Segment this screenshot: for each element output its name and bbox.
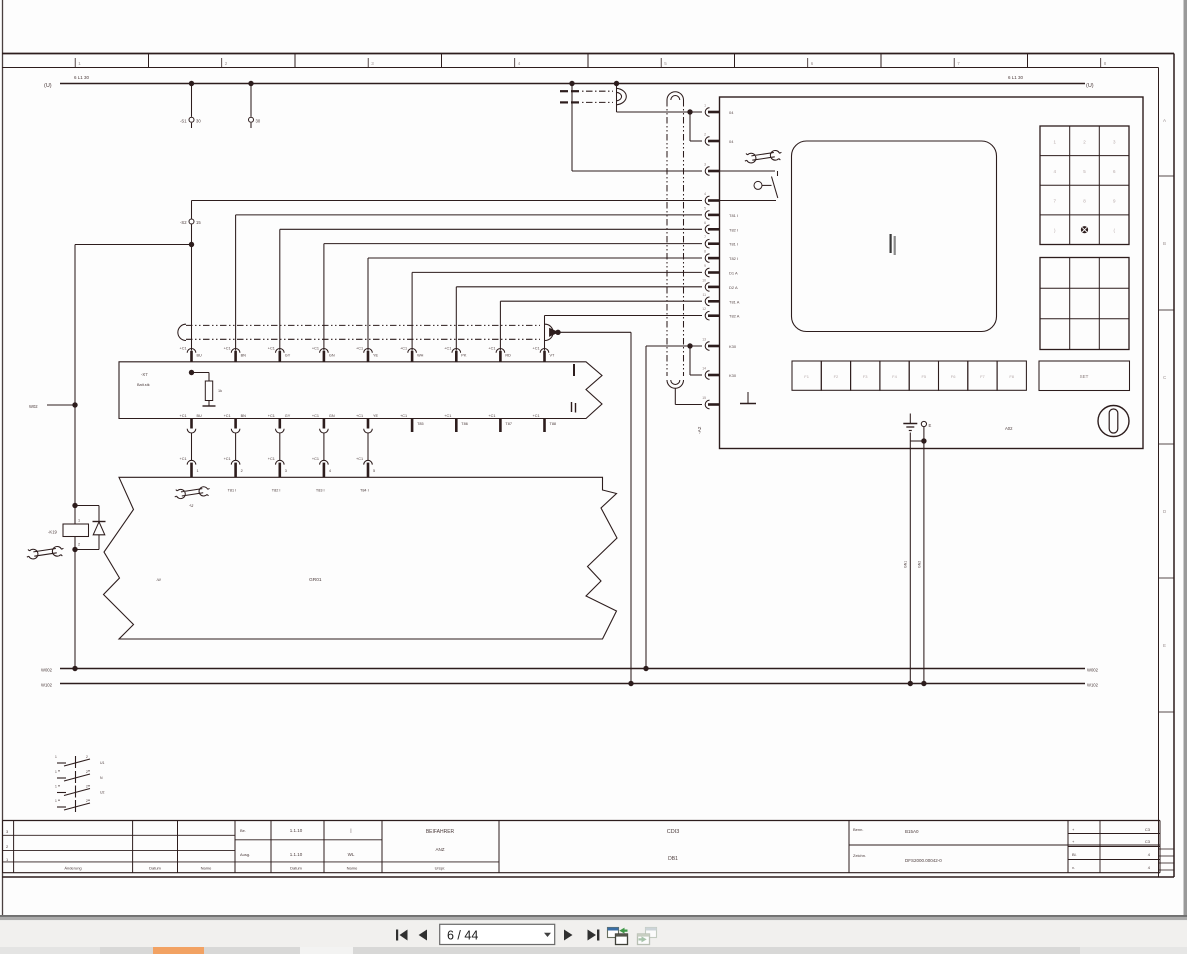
earth terminal E <box>921 421 926 426</box>
wire top supply bus +U <box>60 83 1085 85</box>
svg-text:Name: Name <box>201 866 212 871</box>
toolbar prev-page button <box>419 930 427 941</box>
svg-text:U2: U2 <box>100 791 105 795</box>
frame column ticks and numbers <box>74 58 76 68</box>
service wrench icon near harness W2 <box>173 483 211 503</box>
svg-text:F8: F8 <box>1009 374 1014 379</box>
svg-text:2: 2 <box>86 770 88 774</box>
svg-text:+C1: +C1 <box>312 347 319 351</box>
panel internal ground <box>747 392 749 404</box>
svg-text:+C1: +C1 <box>224 347 231 351</box>
svg-text:U1: U1 <box>100 761 105 765</box>
svg-text:D2 A: D2 A <box>729 285 738 290</box>
connector X7 pin 3 top <box>275 348 284 352</box>
wire pin 2 to lower connector <box>235 433 237 460</box>
panel A2 pin 8 <box>705 254 709 263</box>
svg-text:5: 5 <box>373 469 375 473</box>
twisted pair W3 (dash-dot) <box>560 90 568 92</box>
svg-text:2: 2 <box>86 785 88 789</box>
connector X7 pin 6 bottom stub <box>411 419 414 433</box>
svg-text:GN: GN <box>329 354 335 358</box>
svg-text:15: 15 <box>196 220 201 225</box>
svg-text:Name: Name <box>347 866 358 871</box>
svg-text:GN: GN <box>329 414 335 418</box>
toolbar page combobox <box>440 924 555 944</box>
svg-text:WH: WH <box>417 354 424 358</box>
svg-text:F1: F1 <box>804 374 809 379</box>
wire pin8 to panel <box>500 300 702 302</box>
connector X7 pin 8 top <box>496 348 505 352</box>
svg-text:+C1: +C1 <box>533 414 540 418</box>
svg-text:GN2: GN2 <box>918 561 922 568</box>
wire pin6 to panel <box>412 271 702 273</box>
svg-text:PK: PK <box>461 354 467 358</box>
svg-text:T81 I: T81 I <box>729 242 738 247</box>
svg-text:F7: F7 <box>980 374 985 379</box>
junction pin13 branch <box>687 343 692 348</box>
svg-text:5: 5 <box>704 206 706 210</box>
cable shield W1 (dash-dot pair) <box>186 324 540 326</box>
service wrench icon in panel <box>743 146 783 167</box>
svg-text:+C1: +C1 <box>400 347 407 351</box>
svg-text:T82 I: T82 I <box>729 227 738 232</box>
svg-text:v.: v. <box>1072 865 1075 870</box>
svg-text:8: 8 <box>704 250 706 254</box>
svg-text:T81 A: T81 A <box>729 299 740 304</box>
svg-text:F2: F2 <box>834 374 839 379</box>
svg-text:2: 2 <box>86 799 88 803</box>
status strip right segment <box>1080 947 1187 954</box>
svg-text:+C1: +C1 <box>488 414 495 418</box>
svg-text:GR01: GR01 <box>309 577 322 583</box>
svg-text:W102: W102 <box>41 683 53 688</box>
svg-text:14: 14 <box>702 367 706 371</box>
svg-text:BU: BU <box>197 414 203 418</box>
svg-text:T83 I: T83 I <box>316 489 325 493</box>
svg-text:(U): (U) <box>44 83 52 89</box>
svg-text:ANZ: ANZ <box>436 847 445 852</box>
svg-text:Zeichn.: Zeichn. <box>853 853 866 858</box>
wire pin3 to panel <box>280 228 702 230</box>
svg-text:CDI3: CDI3 <box>667 829 680 835</box>
panel A2 pin 11 <box>705 297 709 306</box>
junction on bus at CAN wire <box>614 81 619 86</box>
junction pin13 wire on W002 <box>643 666 648 671</box>
connector X7 pin 4 top <box>320 348 329 352</box>
svg-text:(U): (U) <box>1086 83 1094 89</box>
svg-text:1.1.10: 1.1.10 <box>290 852 303 857</box>
svg-text:1: 1 <box>55 755 57 759</box>
junction panel pin1 branch <box>687 109 692 114</box>
wire pin9 to panel <box>545 315 703 317</box>
status strip orange segment <box>153 947 204 954</box>
svg-text:Änderung: Änderung <box>64 866 81 871</box>
connector X7 pin 6 top <box>408 348 417 352</box>
svg-text:T87: T87 <box>505 422 512 426</box>
drawing frame top border <box>2 53 1174 55</box>
key switch S10 in panel <box>720 170 776 172</box>
status strip left segment <box>0 947 100 954</box>
svg-text:YE: YE <box>373 354 379 358</box>
svg-text:6: 6 <box>704 221 706 225</box>
svg-text:BN: BN <box>241 414 247 418</box>
svg-text:3: 3 <box>285 469 287 473</box>
svg-text:Bl.: Bl. <box>1072 852 1077 857</box>
svg-text:10: 10 <box>702 278 706 282</box>
svg-text:+C1: +C1 <box>400 414 407 418</box>
svg-text:C3: C3 <box>1145 839 1151 844</box>
svg-text:F3: F3 <box>863 374 868 379</box>
connector X7 pin 9 top <box>540 349 549 353</box>
svg-text:W102: W102 <box>1087 683 1099 688</box>
wire left rail <box>74 245 76 525</box>
SET button in panel <box>1039 361 1130 391</box>
svg-text:1: 1 <box>55 799 57 803</box>
contact cross-reference legend <box>57 762 66 764</box>
page left edge <box>2 0 4 915</box>
wire pin1 to panel with terminal S2 <box>192 200 703 202</box>
svg-text:+C1: +C1 <box>224 414 231 418</box>
wire pin 4 to lower connector <box>323 433 325 460</box>
svg-text:+C1: +C1 <box>533 347 540 351</box>
panel A2 pin 1 <box>705 108 709 117</box>
wire pin2 to panel <box>236 214 702 216</box>
wire shield W4 drain to panel <box>674 388 676 404</box>
svg-text:4: 4 <box>704 192 706 196</box>
panel A2 pin 10 <box>705 283 709 292</box>
harness block W2 outline <box>104 477 618 639</box>
status strip light gap <box>300 947 353 954</box>
earth ground symbol <box>909 414 911 424</box>
wire branch to left rail <box>75 244 192 246</box>
svg-text:+C1: +C1 <box>224 457 231 461</box>
display center glyph <box>890 234 892 253</box>
toolbar top border <box>0 915 1187 917</box>
twisted pair W3 shield termination <box>617 88 627 105</box>
connector X7 pin 5 bottom <box>367 419 370 429</box>
drawing frame inner top border <box>2 67 1159 69</box>
svg-text:+C1: +C1 <box>444 347 451 351</box>
toolbar previous-view button <box>608 928 619 938</box>
svg-text:-W: -W <box>156 578 161 582</box>
svg-text:Ausg.: Ausg. <box>240 852 250 857</box>
svg-text:A02: A02 <box>1005 426 1013 431</box>
drawing frame bottom border <box>2 876 1174 878</box>
svg-text:Urspr.: Urspr. <box>435 866 446 871</box>
svg-text:Benn.: Benn. <box>853 827 863 832</box>
junction left rail on W002 <box>72 666 77 671</box>
panel A2 pin 3 <box>705 167 709 176</box>
svg-text:30: 30 <box>196 119 201 124</box>
svg-text:+C1: +C1 <box>268 347 275 351</box>
junction left rail net label <box>72 402 77 407</box>
suppressor diode V1 across relay <box>75 505 99 507</box>
svg-text:1: 1 <box>55 770 57 774</box>
toolbar last-page button <box>588 930 597 941</box>
wire pin 1 to lower connector <box>191 433 193 460</box>
svg-text:9: 9 <box>704 264 706 268</box>
svg-text:T81 I: T81 I <box>729 213 738 218</box>
harness W1 right tick <box>573 364 575 376</box>
svg-text:BEIFAHRER: BEIFAHRER <box>426 829 455 835</box>
frame column dividers <box>148 54 150 68</box>
wire pin4 to panel <box>324 243 702 245</box>
wire pin13 run <box>646 345 702 347</box>
svg-text:E: E <box>1163 643 1166 648</box>
connector X7 pin 7 top <box>452 348 461 352</box>
svg-text:Batt.stk: Batt.stk <box>137 383 150 387</box>
svg-text:BN: BN <box>241 354 247 358</box>
svg-text:4: 4 <box>329 469 331 473</box>
connector X7 pin 3 bottom <box>279 419 282 429</box>
svg-text:E: E <box>929 423 932 428</box>
svg-text:7: 7 <box>704 235 706 239</box>
svg-text:T84 I: T84 I <box>360 489 369 493</box>
svg-text:F6: F6 <box>951 374 956 379</box>
svg-text:A: A <box>1163 118 1166 123</box>
svg-text:+C1: +C1 <box>356 414 363 418</box>
svg-text:1: 1 <box>55 785 57 789</box>
toolbar next-view button (disabled) <box>646 928 657 938</box>
svg-text:-S1: -S1 <box>180 119 187 124</box>
panel A2 pin 12 <box>705 311 709 320</box>
cable shield W4 vertical (dash-dot) <box>666 100 668 376</box>
svg-text:T81 I: T81 I <box>228 489 237 493</box>
panel A2 pin 14 <box>705 371 709 380</box>
connector X7 pin 2 top <box>231 349 240 353</box>
svg-text:RD: RD <box>505 354 511 358</box>
status strip <box>0 947 1187 954</box>
wire earth to bus <box>909 433 911 684</box>
button grid 3x3 in panel <box>1040 258 1129 350</box>
terminal stub T2 on bus <box>250 84 252 117</box>
svg-text:|: | <box>350 828 351 833</box>
panel A2 pin 13 <box>705 342 709 351</box>
svg-text:D1 A: D1 A <box>729 271 738 276</box>
svg-text:2: 2 <box>86 755 88 759</box>
svg-text:-A2: -A2 <box>697 426 703 434</box>
svg-text:30: 30 <box>256 119 261 124</box>
svg-text:+C1: +C1 <box>268 414 275 418</box>
service wrench icon near relay <box>25 542 65 563</box>
svg-text:13: 13 <box>702 338 706 342</box>
svg-text:-U: -U <box>189 503 193 508</box>
window right edge <box>1184 0 1187 915</box>
svg-text:K30: K30 <box>729 373 737 378</box>
keypad 3x4 in panel <box>1040 126 1129 245</box>
connector X7 pin 5 top <box>364 349 373 353</box>
svg-text:T82 I: T82 I <box>272 489 281 493</box>
svg-text:15: 15 <box>702 396 706 400</box>
svg-text:11: 11 <box>702 293 706 297</box>
title block grid <box>3 820 1161 822</box>
svg-text:04: 04 <box>729 139 734 144</box>
panel A2 pin 5 <box>705 211 709 220</box>
svg-text:Be.: Be. <box>240 828 246 833</box>
terminal stub T1 on bus <box>191 84 193 117</box>
svg-text:6 L1 30: 6 L1 30 <box>1008 75 1024 80</box>
toolbar next-page button <box>564 930 573 941</box>
svg-text:B: B <box>1163 241 1166 246</box>
svg-text:GN1: GN1 <box>904 561 908 568</box>
toolbar first-page button <box>396 930 398 941</box>
panel A2 outline <box>720 97 1144 449</box>
junction on bus at S3 <box>248 81 253 86</box>
svg-text:3: 3 <box>704 163 706 167</box>
wire bus W102 <box>60 683 1085 685</box>
cable shield W1 right termination arrow <box>545 324 553 340</box>
svg-text:C3: C3 <box>1145 827 1151 832</box>
svg-text:DB1: DB1 <box>668 856 678 862</box>
svg-text:BU: BU <box>197 354 203 358</box>
connector X7 pin 1 bottom <box>190 419 193 429</box>
connector X7 pin 2 bottom <box>234 419 237 429</box>
svg-text:2: 2 <box>241 469 243 473</box>
svg-text:1: 1 <box>704 104 706 108</box>
svg-text:VT: VT <box>550 354 556 358</box>
svg-text:1.1.10: 1.1.10 <box>290 828 303 833</box>
frame row ticks <box>1159 175 1175 177</box>
svg-text:+C1: +C1 <box>312 414 319 418</box>
harness block W1 outline <box>119 362 602 419</box>
svg-text:T85: T85 <box>417 422 424 426</box>
svg-text:T88: T88 <box>550 422 557 426</box>
wire pin 3 to lower connector <box>279 433 281 460</box>
svg-text:+C1: +C1 <box>488 347 495 351</box>
svg-text:YE: YE <box>373 414 379 418</box>
svg-text:6 L1 30: 6 L1 30 <box>74 75 90 80</box>
svg-text:+C1: +C1 <box>356 457 363 461</box>
toolbar background <box>0 920 1187 947</box>
panel A2 pin 2 <box>705 137 709 146</box>
panel A2 pin 9 <box>705 268 709 277</box>
wire pin 5 to lower connector <box>367 433 369 460</box>
svg-text:WL: WL <box>348 852 355 857</box>
svg-text:1: 1 <box>197 469 199 473</box>
wire branch to pin14 <box>689 346 691 375</box>
svg-text:+C1: +C1 <box>180 414 187 418</box>
svg-text:GY: GY <box>285 354 291 358</box>
drawing frame right outer border <box>1173 54 1175 878</box>
svg-text:2: 2 <box>78 543 80 547</box>
svg-text:Datum: Datum <box>290 866 302 871</box>
resistor R1 inside harness <box>189 370 194 375</box>
svg-text:-K19: -K19 <box>48 530 58 535</box>
wire bus W002 <box>60 668 1085 670</box>
junction shield drain on bus W102 <box>628 681 633 686</box>
svg-text:W002: W002 <box>41 668 53 673</box>
junction earth wire 1 on W102 <box>908 681 913 686</box>
connector X7 pin 7 bottom stub <box>455 419 458 433</box>
svg-text:04: 04 <box>729 110 734 115</box>
svg-text:GY: GY <box>285 414 291 418</box>
svg-text:1k: 1k <box>218 389 222 393</box>
svg-text:B15A0: B15A0 <box>905 829 919 834</box>
svg-text:F5: F5 <box>921 374 926 379</box>
svg-text:-S2: -S2 <box>180 220 187 225</box>
wire branch to panel pin2 <box>689 112 691 141</box>
svg-text:2: 2 <box>704 133 706 137</box>
panel display screen <box>792 141 997 332</box>
junction on bus at shield wire <box>569 81 574 86</box>
wire bus to panel pin1 <box>616 84 618 113</box>
power knob in panel <box>1098 406 1129 437</box>
svg-text:6 / 44: 6 / 44 <box>447 928 478 942</box>
svg-text:W02: W02 <box>29 404 38 409</box>
svg-text:+C1: +C1 <box>180 347 187 351</box>
relay coil K19 <box>63 524 89 537</box>
svg-text:W002: W002 <box>1087 668 1099 673</box>
wire pin7 to panel <box>456 286 702 288</box>
junction earth wire 2 on W102 <box>921 681 926 686</box>
svg-text:SET: SET <box>1080 374 1089 379</box>
panel A2 pin 6 <box>705 225 709 234</box>
connector X7 pin 8 bottom stub <box>499 419 502 433</box>
drawing frame right inner border <box>1158 68 1160 878</box>
svg-text:1: 1 <box>78 519 80 523</box>
svg-text:12: 12 <box>702 307 706 311</box>
svg-text:+C1: +C1 <box>356 347 363 351</box>
svg-text:K30: K30 <box>729 344 737 349</box>
svg-text:F4: F4 <box>892 374 897 379</box>
svg-text:T82 I: T82 I <box>729 256 738 261</box>
harness W1 right mark <box>571 402 573 412</box>
svg-text:+C1: +C1 <box>268 457 275 461</box>
wire shield drain to bus2 <box>558 331 631 333</box>
svg-text:T82 A: T82 A <box>729 314 740 319</box>
svg-text:DFS2000.00042-0: DFS2000.00042-0 <box>905 858 942 863</box>
svg-text:+C1: +C1 <box>312 457 319 461</box>
wire pin5 to panel <box>368 257 702 259</box>
panel A2 pin 4 <box>705 196 709 205</box>
svg-text:+C1: +C1 <box>444 414 451 418</box>
junction relay top <box>72 503 77 508</box>
svg-text:Datum: Datum <box>149 866 161 871</box>
svg-text:-X7: -X7 <box>141 372 148 377</box>
wire bus to panel pin3 <box>571 84 573 172</box>
svg-text:T86: T86 <box>461 422 468 426</box>
connector X7 pin 1 top <box>187 348 196 352</box>
panel A2 pin 15 <box>705 400 709 409</box>
junction on bus at S1 <box>189 81 194 86</box>
connector X7 pin 9 bottom stub <box>543 419 546 433</box>
net pointer wire <box>47 404 75 406</box>
function key row in panel <box>792 361 821 390</box>
junction relay bottom <box>72 547 77 552</box>
panel A2 pin 7 <box>705 239 709 248</box>
junction pin1 column <box>189 242 194 247</box>
svg-text:+C1: +C1 <box>180 457 187 461</box>
connector X7 pin 4 bottom <box>323 419 326 429</box>
